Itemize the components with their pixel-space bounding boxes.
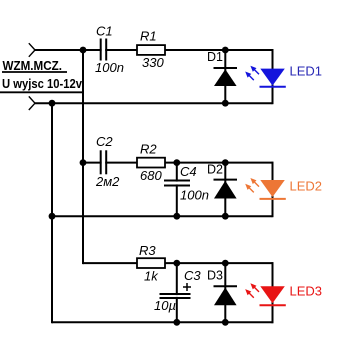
diode D2 [207,163,237,199]
wire C4 branch [176,163,178,217]
wire D1 branch [224,50,226,103]
wire LED1 branch [272,49,274,104]
svg-text:R2: R2 [140,142,157,157]
wire LED3 branch [272,262,274,323]
resistor R2 [137,142,165,184]
wire C3 branch [176,263,178,322]
svg-text:D2: D2 [207,163,223,177]
node C3 bottom [173,319,180,326]
svg-text:680: 680 [140,168,162,183]
wire D3 branch [224,263,226,322]
LED2 (orange) [245,178,322,199]
wire left rail upper [82,49,84,264]
diode D1 [207,50,237,86]
diode D3 [207,269,237,306]
svg-text:1k: 1k [144,269,159,284]
node D2 top [222,159,229,166]
node bottom rail junction row1 [49,100,56,107]
wire row3 bottom [52,321,273,323]
svg-text:D3: D3 [207,269,223,283]
resistor R3 [137,243,165,284]
capacitor C1 [95,24,124,76]
wire row3 top [83,262,273,264]
capacitor C2 [95,134,120,189]
label WZM.MCZ. [2,59,67,73]
svg-text:100n: 100n [95,60,124,75]
svg-text:C2: C2 [96,134,113,149]
connector input 2 [29,96,35,110]
resistor R1 [137,29,165,71]
wire row2 top [83,162,273,164]
svg-text:LED1: LED1 [290,64,323,79]
svg-text:C3: C3 [184,268,201,283]
LED1 (blue) [245,64,322,87]
capacitor C3 (electrolytic) [154,268,201,313]
wire left rail lower [51,102,53,323]
svg-text:10µ: 10µ [154,298,176,313]
node D2 bottom [222,213,229,220]
svg-text:100n: 100n [180,188,209,203]
svg-text:LED2: LED2 [290,179,323,194]
svg-text:R1: R1 [140,29,157,44]
svg-text:C1: C1 [96,24,113,39]
svg-text:2м2: 2м2 [95,174,120,189]
svg-text:330: 330 [142,55,164,70]
node top rail junction [80,47,87,54]
node C4 bottom [173,213,180,220]
node D1 bottom [222,100,229,107]
capacitor C4 [164,164,209,203]
wire row1 bottom [35,102,273,104]
wire row1 top [35,49,273,51]
node row2 rail junction [80,159,87,166]
svg-text:D1: D1 [207,50,223,64]
label U wyjsc 10-12v [0,77,83,92]
node D1 top [222,47,229,54]
svg-text:LED3: LED3 [290,284,323,299]
LED3 (red) [245,283,322,305]
wire D2 branch [224,163,226,217]
node row2 bottom rail [49,213,56,220]
svg-text:R3: R3 [139,243,156,258]
wire row2 bottom [52,215,273,217]
node D3 top [222,260,229,267]
node D3 bottom [222,319,229,326]
wire LED2 branch [272,162,274,218]
connector input 1 [29,43,35,57]
svg-text:WZM.MCZ.: WZM.MCZ. [3,59,63,73]
svg-text:C4: C4 [180,164,197,179]
svg-text:U wyjsc 10-12v: U wyjsc 10-12v [2,77,82,91]
node C4 top [173,159,180,166]
node C3 top [173,260,180,267]
